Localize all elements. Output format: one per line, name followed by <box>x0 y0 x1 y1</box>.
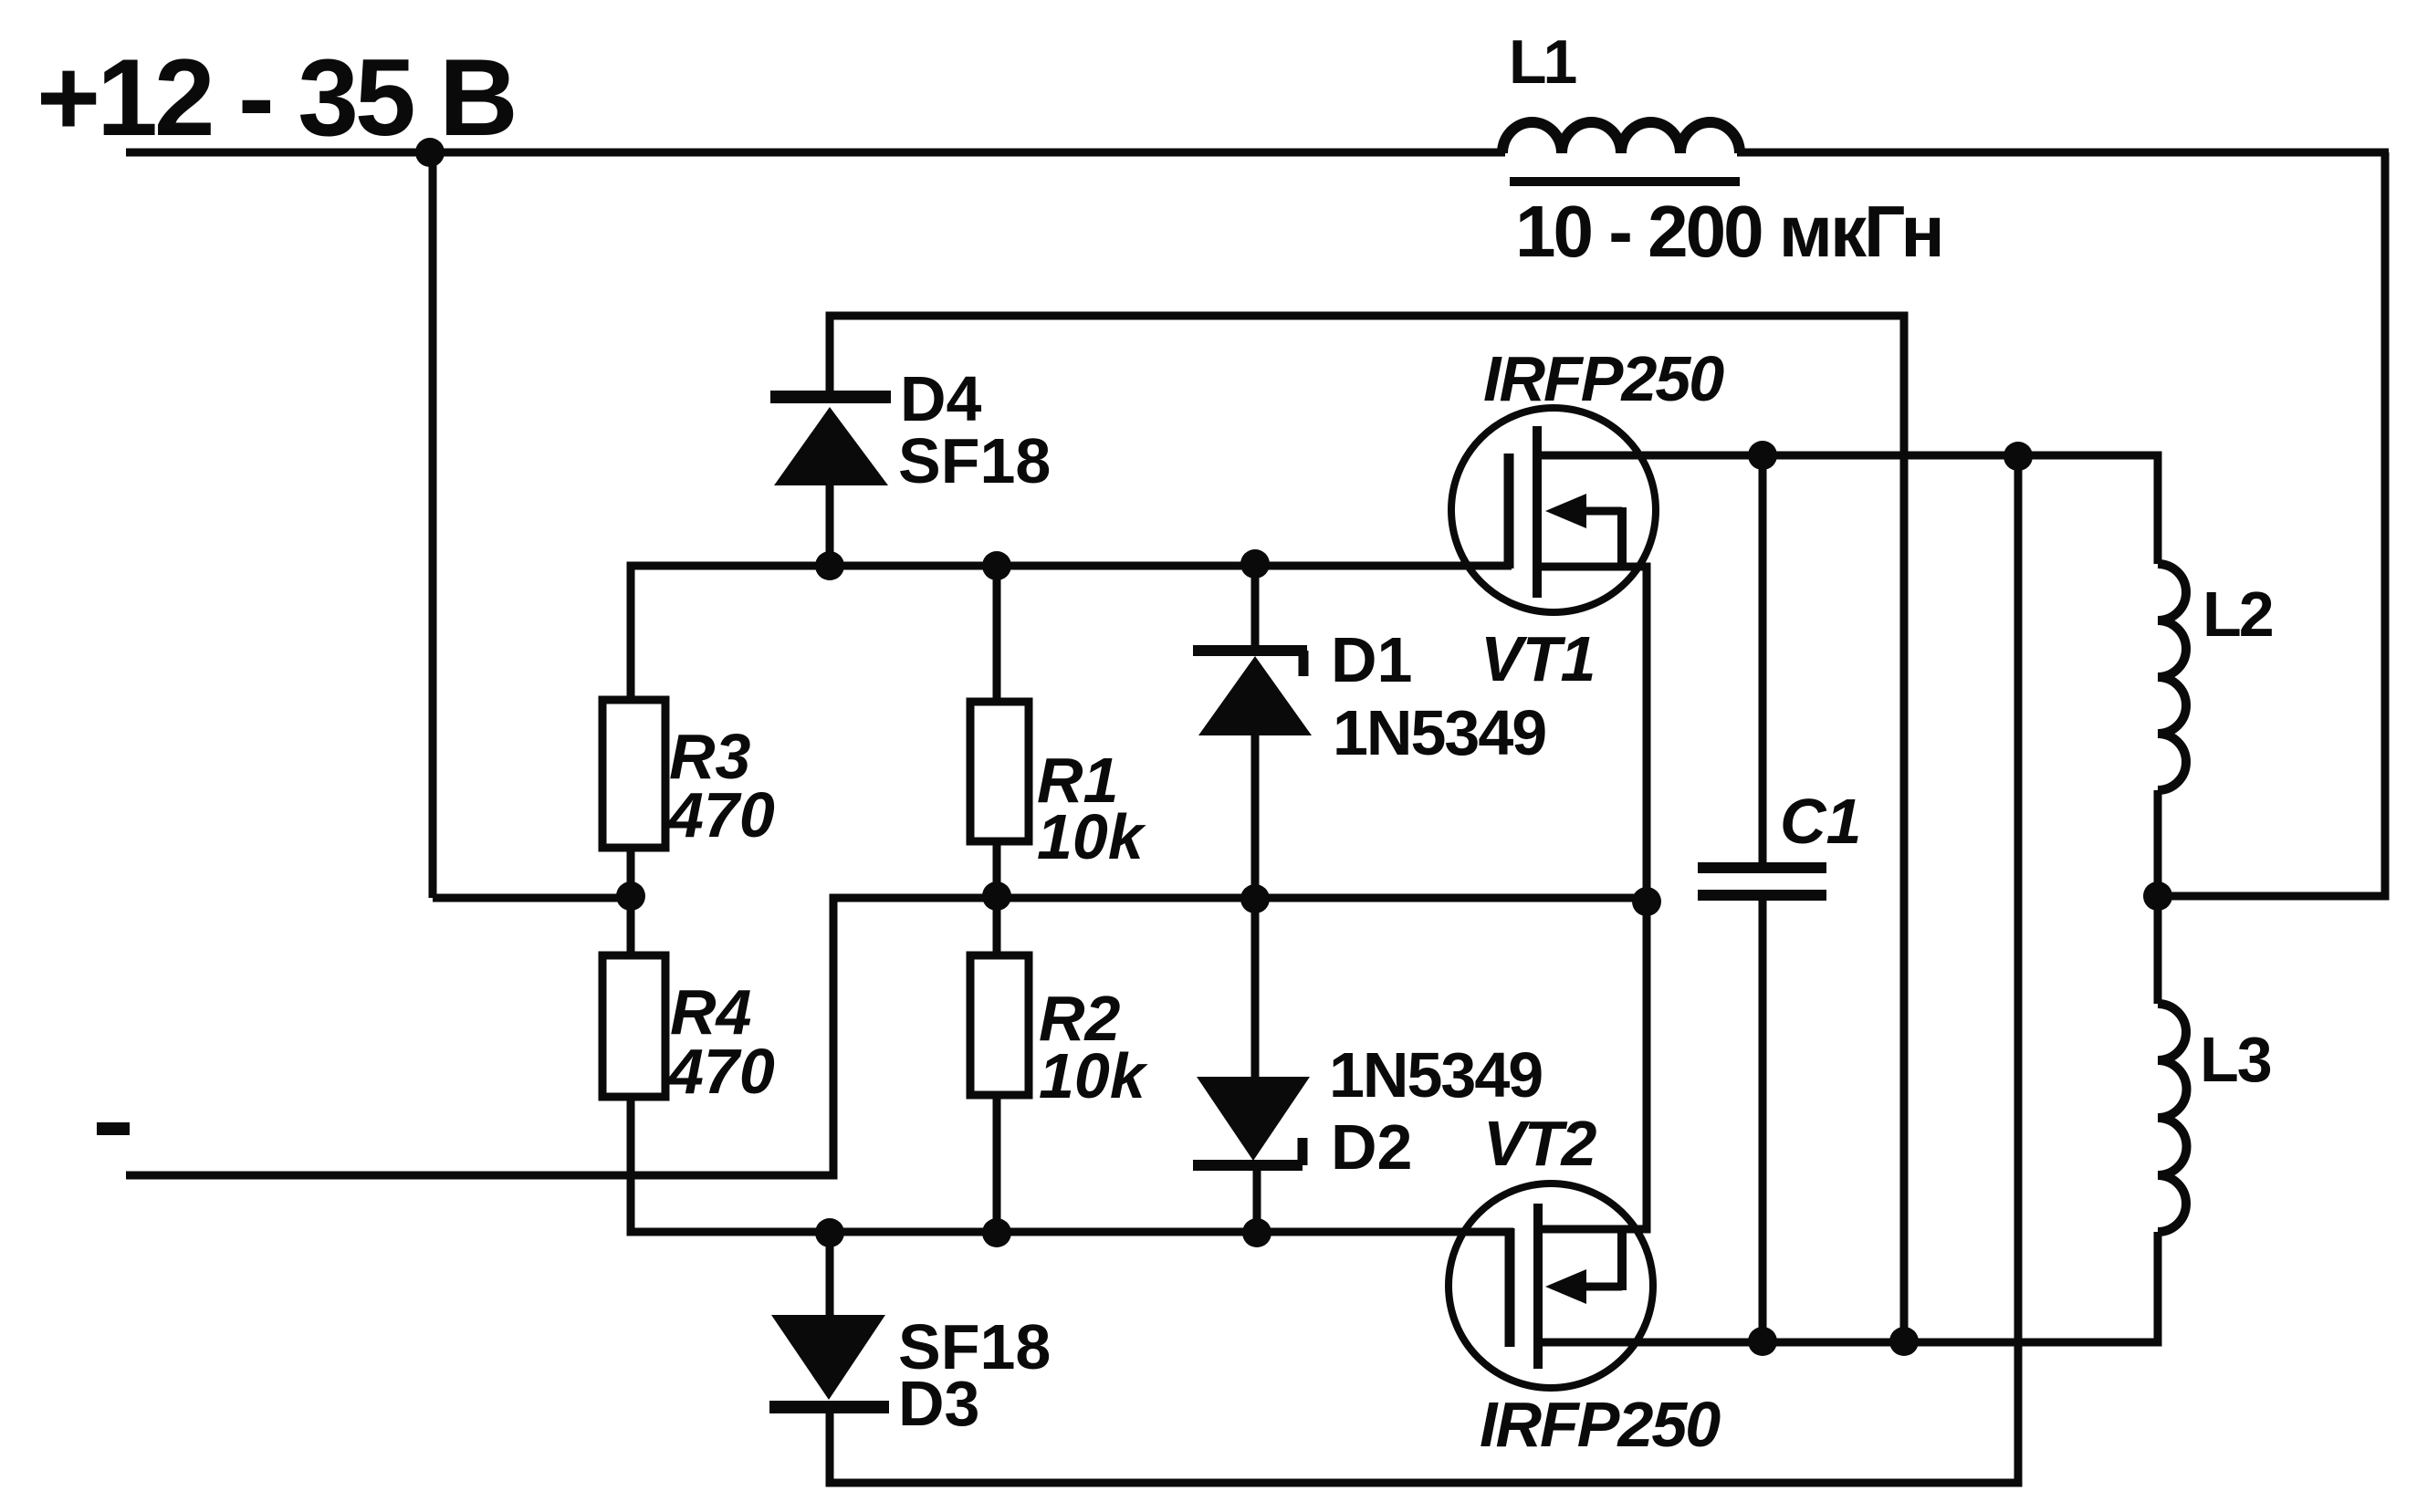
node dot VT1 source / VT2 drain <box>1632 887 1661 916</box>
diode D4 <box>826 485 834 566</box>
svg-text:SF18: SF18 <box>898 425 1051 496</box>
svg-text:L2: L2 <box>2203 579 2273 650</box>
node dot inner box right on source rail <box>1889 1327 1919 1356</box>
transistor VT1 <box>1451 408 1656 612</box>
inductor L3 <box>2158 1004 2187 1232</box>
node dot D1/D2 mid <box>1240 884 1270 913</box>
wire drain rail VT1 <box>1537 455 2158 564</box>
capacitor C1 <box>1759 457 1767 863</box>
resistor R3 <box>602 700 665 848</box>
node dot D1 top <box>1240 549 1270 579</box>
wire gate rail top <box>631 566 1512 700</box>
wire to R3/R4 junction <box>433 894 631 902</box>
node dot D3 gate rail <box>815 1218 844 1247</box>
svg-text:VT1: VT1 <box>1481 623 1595 694</box>
svg-text:+12 - 35 В: +12 - 35 В <box>37 36 515 159</box>
node dot D4 gate rail <box>815 551 844 580</box>
resistor R4 <box>602 955 665 1097</box>
zener diode D1 <box>1251 564 1260 646</box>
svg-text:1N5349: 1N5349 <box>1329 1039 1542 1111</box>
wire center tap to right vertical <box>2158 152 2385 896</box>
resistor R2 <box>970 955 1029 1095</box>
node dot C1 bottom riser on source rail <box>1748 1327 1777 1356</box>
node dot plus rail <box>415 138 445 167</box>
node dot C1 top <box>1748 441 1777 470</box>
wire D1 to D2 <box>1251 735 1260 1077</box>
svg-text:10k: 10k <box>1037 801 1146 872</box>
svg-text:D2: D2 <box>1331 1111 1412 1183</box>
inductor L1 <box>1502 122 1740 153</box>
node dot D2 bottom <box>1242 1218 1271 1247</box>
svg-text:L1: L1 <box>1509 27 1576 97</box>
zener diode D2 <box>1197 1077 1310 1161</box>
svg-text:1N5349: 1N5349 <box>1333 697 1545 768</box>
svg-text:470: 470 <box>666 779 775 850</box>
wire L2 to L3 <box>2154 790 2162 1004</box>
wire left vertical from plus rail <box>429 152 437 898</box>
wire top rail left segment <box>126 149 1505 157</box>
svg-text:IRFP250: IRFP250 <box>1483 343 1724 414</box>
node dot R3/R4 <box>616 881 645 911</box>
resistor R1 <box>993 566 1001 702</box>
svg-text:D4: D4 <box>900 363 982 434</box>
wire VT1 source to VT2 drain <box>1537 567 1647 1229</box>
svg-text:D3: D3 <box>898 1368 979 1439</box>
svg-text:10 - 200 мкГн: 10 - 200 мкГн <box>1515 191 1942 272</box>
svg-text:VT2: VT2 <box>1483 1108 1596 1179</box>
svg-text:470: 470 <box>666 1036 775 1107</box>
svg-text:C1: C1 <box>1780 786 1861 857</box>
node dot drain rail / D3 riser <box>2004 442 2033 471</box>
node dot R1 top <box>982 551 1011 580</box>
node dot R2 bottom <box>982 1218 1011 1247</box>
transistor VT2 <box>1449 1184 1653 1388</box>
svg-text:10k: 10k <box>1039 1040 1148 1111</box>
wire minus rail <box>126 898 1648 1175</box>
svg-text:IRFP250: IRFP250 <box>1480 1389 1721 1460</box>
svg-text:L3: L3 <box>2200 1024 2271 1095</box>
svg-text:D1: D1 <box>1331 624 1412 695</box>
wire inner box top <box>830 316 1904 1341</box>
wire bottom line from D3 <box>830 456 2018 1483</box>
node dot L2/L3 center tap <box>2143 881 2172 911</box>
node dot R1/R2 mid <box>982 881 1011 911</box>
wire L3 to source rail <box>1538 1232 2158 1342</box>
inductor L2 <box>2158 564 2186 790</box>
minus terminal label <box>97 1122 130 1135</box>
diode D3 <box>826 1232 834 1315</box>
wire top rail right segment <box>1737 149 2389 157</box>
wire gate rail bottom <box>631 1097 1513 1232</box>
